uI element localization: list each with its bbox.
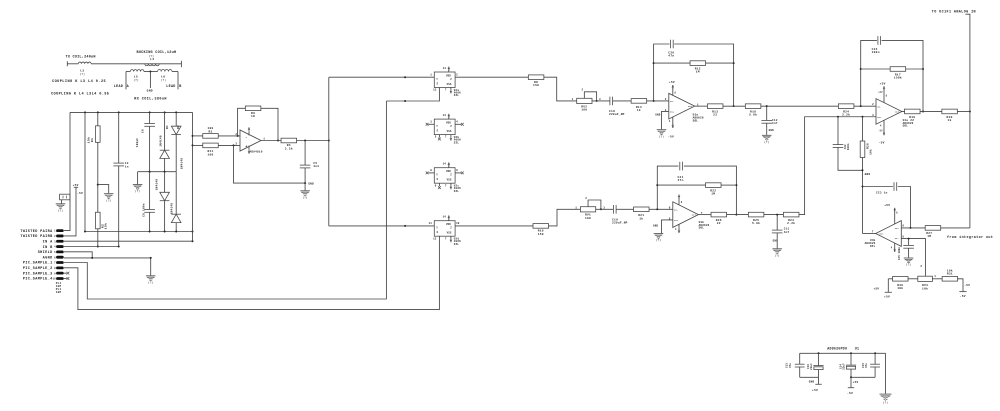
connector pin 1 TWISTED PAIRA <box>56 229 64 232</box>
svg-text:1M: 1M <box>711 193 715 196</box>
svg-text:100: 100 <box>585 217 591 220</box>
no-connect <box>461 172 464 175</box>
svg-text:+5V: +5V <box>669 81 675 84</box>
V- arrow <box>450 89 453 93</box>
svg-text:14: 14 <box>443 216 447 219</box>
svg-text:7: 7 <box>445 136 447 139</box>
svg-text:IN-: IN- <box>674 209 678 212</box>
power V- U5 <box>248 150 251 154</box>
junction IN B / C2 <box>118 246 120 248</box>
connector pin 3 IN A <box>56 240 64 243</box>
svg-text:L4: L4 <box>150 58 154 61</box>
svg-text:9: 9 <box>456 169 458 172</box>
resistor R17 body <box>890 67 906 72</box>
V+ arrow <box>448 215 451 219</box>
svg-text:(?): (?) <box>149 54 155 58</box>
capacitor C10 plates <box>610 97 613 106</box>
junction <box>404 100 406 102</box>
capacitor C24 plates <box>878 36 881 45</box>
resistor R19 body <box>905 109 921 114</box>
junction corner <box>150 257 152 259</box>
wire <box>544 77 577 101</box>
wire lead B vertical <box>177 72 179 90</box>
V+ arrow <box>678 195 681 199</box>
svg-text:BUCKING COIL,12uH: BUCKING COIL,12uH <box>137 51 177 55</box>
V+ arrow <box>893 208 896 212</box>
wire <box>850 369 852 377</box>
stub <box>64 277 67 279</box>
svg-text:-5V: -5V <box>847 392 853 395</box>
svg-text:SOL: SOL <box>699 227 705 230</box>
wire ground tap <box>98 185 109 194</box>
svg-text:7: 7 <box>445 89 447 92</box>
resistor R8 body <box>528 75 544 80</box>
junction RV2 pin3 <box>596 100 598 102</box>
wire <box>175 112 177 126</box>
wire <box>164 112 166 150</box>
wire twisted pair A riser <box>64 112 70 230</box>
wire IN A <box>64 240 193 242</box>
resistor R11 body <box>203 143 219 148</box>
wire <box>164 158 166 171</box>
wire <box>662 220 673 233</box>
svg-text:4n7: 4n7 <box>772 122 778 125</box>
junction bus <box>84 111 86 113</box>
junction feedback U4A <box>860 105 862 107</box>
capacitor C6 plates <box>144 124 155 127</box>
svg-text:C8 100n: C8 100n <box>142 203 145 217</box>
wire <box>592 100 610 102</box>
resistor R10 body <box>533 224 549 229</box>
wire <box>218 135 240 137</box>
svg-text:+5V: +5V <box>884 296 890 299</box>
no-connect <box>426 172 429 175</box>
junction <box>922 68 924 70</box>
junction IN A end <box>192 240 194 242</box>
wire <box>932 278 942 280</box>
op-amp U3A triangle <box>669 93 695 119</box>
wire riser to U4A pin3 <box>799 117 876 215</box>
wire <box>850 377 852 387</box>
svg-text:IN+: IN+ <box>674 219 679 222</box>
svg-text:3: 3 <box>430 120 432 123</box>
junction <box>860 68 862 70</box>
junction <box>84 231 86 233</box>
svg-text:TWISTED PAIRB: TWISTED PAIRB <box>20 235 53 239</box>
wire GND column <box>862 158 864 234</box>
svg-text:PIC_SAMPLE_4: PIC_SAMPLE_4 <box>23 278 53 282</box>
wire <box>304 141 306 166</box>
wire feedback left/top <box>654 44 670 101</box>
inductor L4 humps <box>145 64 159 66</box>
wire <box>766 123 768 128</box>
wire U3A output <box>695 105 708 107</box>
svg-text:220uF_NP: 220uF_NP <box>609 113 625 116</box>
op-amp U3B triangle <box>673 202 699 228</box>
svg-text:47n: 47n <box>668 55 674 58</box>
diode D2 1N4148 <box>171 126 181 134</box>
svg-text:1k: 1k <box>639 216 643 220</box>
VDD stub <box>448 165 450 168</box>
wire R12 rail <box>654 62 690 64</box>
resistor R20 body <box>942 109 958 114</box>
svg-text:PIC_SAMPLE_1: PIC_SAMPLE_1 <box>23 262 53 266</box>
svg-text:22uF: 22uF <box>842 363 845 370</box>
svg-text:3.3k: 3.3k <box>285 146 293 150</box>
svg-text:1N4148: 1N4148 <box>155 179 158 191</box>
V+ arrow <box>883 86 886 90</box>
svg-text:IN-: IN- <box>895 237 899 240</box>
svg-text:2: 2 <box>585 197 587 200</box>
inductor L5 humps <box>130 70 144 72</box>
ground <box>657 130 667 135</box>
wire RV2 wiper loop <box>584 92 596 101</box>
resistor R9 body <box>245 106 261 111</box>
svg-text:22: 22 <box>910 119 914 122</box>
svg-text:(?): (?) <box>80 72 86 76</box>
svg-text:100n: 100n <box>847 143 850 150</box>
svg-text:10: 10 <box>456 222 460 225</box>
svg-text:22: 22 <box>713 114 717 117</box>
wire <box>818 353 820 365</box>
svg-text:C25 100n: C25 100n <box>898 247 901 261</box>
wire <box>193 144 203 146</box>
svg-text:+5V: +5V <box>880 82 886 85</box>
svg-text:3n3: 3n3 <box>313 165 319 168</box>
wire <box>883 86 885 102</box>
stub <box>455 123 461 125</box>
V- arrow <box>678 229 681 233</box>
junction C22 tap <box>837 116 839 118</box>
wire output node <box>297 140 329 142</box>
terminal tick left <box>66 61 68 66</box>
svg-text:GND: GND <box>809 380 815 383</box>
connector pin 8 PIC_SAMPLE_2 <box>56 266 64 269</box>
wire <box>766 128 768 135</box>
power bar <box>885 291 892 293</box>
svg-text:SIL: SIL <box>454 94 460 97</box>
wiper stub <box>925 275 927 278</box>
wire feedback top/right <box>684 166 737 215</box>
svg-text:12: 12 <box>433 237 437 240</box>
junction feedback U3A <box>653 100 655 102</box>
wire RV1 wiper loop <box>588 200 601 209</box>
resistor R4 body <box>281 138 297 143</box>
svg-text:2: 2 <box>235 133 237 136</box>
svg-text:47u: 47u <box>865 363 868 368</box>
svg-text:1k: 1k <box>948 118 952 122</box>
wire from integrator <box>941 227 970 229</box>
wire to switch U2A <box>329 76 435 78</box>
connector pin 7 PIC_SAMPLE_1 <box>56 261 64 264</box>
VSS stub <box>450 135 452 137</box>
wire <box>149 212 151 231</box>
wire <box>837 117 839 145</box>
junction <box>175 231 177 233</box>
svg-text:5: 5 <box>902 235 904 238</box>
junction fanout <box>328 140 330 142</box>
svg-text:1M: 1M <box>696 71 700 74</box>
node center tap <box>149 71 151 73</box>
svg-text:B: B <box>179 85 181 89</box>
svg-text:220uF_NP: 220uF_NP <box>612 222 628 225</box>
wire <box>97 229 99 247</box>
wire <box>218 144 240 146</box>
power bar <box>959 291 966 293</box>
junction bus <box>175 111 177 113</box>
capacitor C19 plates <box>613 205 616 214</box>
junction to R11 <box>192 144 194 146</box>
capacitor C25 plates <box>903 245 914 248</box>
wire top bus <box>70 111 193 113</box>
svg-text:D1: D1 <box>166 125 169 129</box>
resistor R25 body <box>748 212 764 217</box>
svg-text:(?): (?) <box>106 199 111 202</box>
ground <box>133 185 143 190</box>
wire <box>193 135 203 137</box>
wire <box>118 112 120 163</box>
capacitor C3 <box>60 194 70 200</box>
junction <box>850 376 852 378</box>
svg-text:180pF: 180pF <box>136 138 139 148</box>
wire rail <box>851 376 875 378</box>
connector pin 10 PIC_SAMPLE_4 <box>56 277 64 280</box>
wire twisted pair B riser <box>64 187 76 236</box>
resistor R14 body <box>631 99 647 104</box>
wire <box>766 106 768 120</box>
resistor R23 body <box>783 212 799 217</box>
svg-text:22: 22 <box>717 222 721 225</box>
diode D3 1N4148 <box>160 192 170 200</box>
resistor R22 body <box>706 183 722 188</box>
diode D1 1N4148 <box>160 150 170 158</box>
svg-text:1K: 1K <box>251 115 255 118</box>
wire <box>908 248 910 257</box>
wire bus drop <box>84 112 86 231</box>
wire <box>818 377 820 384</box>
resistor R2 body <box>96 212 101 229</box>
svg-text:(?): (?) <box>906 264 911 267</box>
inductor L6 humps <box>158 70 172 72</box>
V+ arrow <box>672 85 675 89</box>
svg-text:6: 6 <box>435 184 437 187</box>
wire <box>144 71 158 73</box>
wire <box>248 131 250 135</box>
wire <box>799 367 801 377</box>
svg-text:IN+: IN+ <box>670 111 675 114</box>
V- arrow <box>672 124 675 128</box>
capacitor C20 plates <box>671 40 674 49</box>
capacitor C22 plates <box>833 145 844 148</box>
svg-text:7: 7 <box>872 230 874 233</box>
svg-text:SIL: SIL <box>454 141 460 144</box>
wire feedback top left <box>863 186 893 188</box>
wire <box>137 172 139 184</box>
wire pin5 to RV3 wiper <box>901 239 925 276</box>
junction <box>149 171 151 173</box>
junction <box>404 76 406 78</box>
V- arrow <box>450 238 453 242</box>
no-connect <box>67 277 70 280</box>
resistor R3 body <box>203 134 219 139</box>
capacitor C12 plates <box>761 120 772 123</box>
svg-text:7: 7 <box>445 184 447 187</box>
inductor L3 humps <box>78 62 91 64</box>
wire <box>172 71 178 73</box>
VDD stub <box>448 218 450 221</box>
svg-text:PIC_SAMPLE_3: PIC_SAMPLE_3 <box>23 272 53 276</box>
svg-text:2: 2 <box>456 73 458 76</box>
resistor R30 body <box>893 277 909 282</box>
svg-text:+5V: +5V <box>812 389 818 392</box>
svg-text:(?): (?) <box>656 239 661 242</box>
capacitor C2 plates <box>113 163 124 166</box>
VSS stub <box>450 88 452 90</box>
svg-text:C6: C6 <box>142 129 145 133</box>
no-connect <box>438 138 441 141</box>
resistor R26 body <box>711 212 727 217</box>
svg-text:150: 150 <box>538 233 544 236</box>
svg-text:COUPLING K L4 L3L4 0.95: COUPLING K L4 L3L4 0.95 <box>51 92 109 96</box>
junction C5 tap <box>304 140 306 142</box>
resistor R28 body <box>860 141 865 158</box>
svg-text:GND: GND <box>865 173 871 176</box>
wire <box>126 71 130 73</box>
analog switch U2A body <box>434 72 455 88</box>
connector pin 6 AGND <box>56 256 64 259</box>
svg-text:-5V: -5V <box>879 141 885 144</box>
wire to switch U2D <box>329 225 435 227</box>
wire clamp bottom rail <box>85 231 193 233</box>
svg-text:R28: R28 <box>867 143 870 149</box>
analog switch U2D body <box>434 221 455 237</box>
svg-text:GND: GND <box>653 225 659 228</box>
junction C25 tap <box>908 238 910 240</box>
svg-text:1n: 1n <box>125 165 129 168</box>
svg-text:14: 14 <box>443 163 447 166</box>
junction output bus <box>969 110 971 112</box>
svg-text:14: 14 <box>443 67 447 70</box>
wire <box>118 166 120 247</box>
svg-text:RX COIL,380uH: RX COIL,380uH <box>134 98 167 102</box>
svg-text:100: 100 <box>581 109 587 112</box>
wire <box>863 233 876 235</box>
svg-text:47n: 47n <box>678 179 684 182</box>
svg-text:C23 1n: C23 1n <box>876 192 888 195</box>
wire sense column <box>192 112 194 241</box>
wire <box>727 214 749 216</box>
stub E <box>438 135 440 138</box>
wire <box>149 112 151 123</box>
svg-text:IN+: IN+ <box>895 227 900 230</box>
svg-text:(?): (?) <box>303 196 308 199</box>
svg-text:(?): (?) <box>148 281 153 284</box>
junction IN B / R2 <box>97 246 99 248</box>
svg-text:-5V: -5V <box>964 284 970 287</box>
junction <box>862 169 864 171</box>
svg-text:from integrator out: from integrator out <box>947 235 993 240</box>
wire <box>616 208 633 210</box>
wire <box>149 126 151 171</box>
svg-text:OUT: OUT <box>692 214 697 217</box>
junction R26/R25 <box>735 214 737 216</box>
svg-text:1: 1 <box>934 275 936 278</box>
svg-text:100n: 100n <box>872 51 880 54</box>
svg-text:1: 1 <box>430 73 432 76</box>
svg-text:(?): (?) <box>161 78 167 82</box>
wire <box>672 117 674 128</box>
wire <box>906 68 923 70</box>
power V+ U5 <box>248 127 251 131</box>
trimmer RV1 <box>580 207 595 212</box>
svg-text:AD8626PDU: AD8626PDU <box>827 347 847 351</box>
wire <box>248 146 250 150</box>
ground <box>880 394 892 400</box>
wire <box>883 120 885 135</box>
svg-text:1N4148: 1N4148 <box>159 135 162 147</box>
svg-text:(?): (?) <box>775 254 780 257</box>
terminal tick right <box>180 61 182 67</box>
svg-text:-5V: -5V <box>960 295 966 298</box>
svg-text:-5V: -5V <box>878 130 883 133</box>
svg-text:+5V: +5V <box>873 288 879 291</box>
junction C12 tap <box>766 105 768 107</box>
stub <box>428 123 434 125</box>
junction <box>874 352 876 354</box>
svg-text:2: 2 <box>582 89 584 92</box>
svg-text:+5V: +5V <box>73 184 79 187</box>
V- arrow <box>883 131 886 135</box>
wire feedback <box>238 108 246 136</box>
connector pin 2 TWISTED PAIRB <box>56 235 64 238</box>
trimmer RV2 <box>577 98 592 103</box>
svg-text:R1: R1 <box>90 138 94 142</box>
svg-text:10: 10 <box>53 278 57 281</box>
resistor R31 body <box>942 277 958 282</box>
ground <box>772 249 782 254</box>
wire shield <box>64 252 92 258</box>
svg-text:1M: 1M <box>927 235 931 238</box>
svg-text:(?): (?) <box>58 209 63 212</box>
junction <box>735 184 737 186</box>
svg-text:GND: GND <box>147 90 153 93</box>
junction <box>164 171 166 173</box>
connector pin 9 PIC_SAMPLE_3 <box>56 272 64 275</box>
V+ arrow <box>448 162 451 166</box>
junction R13/R18 <box>733 105 735 107</box>
wire <box>908 239 910 246</box>
wire <box>776 215 778 231</box>
junction <box>733 62 735 64</box>
junction feedback U4B <box>862 186 864 188</box>
stub <box>455 172 461 174</box>
resistor R24 body <box>838 104 854 109</box>
svg-text:5.6k: 5.6k <box>752 221 760 225</box>
wire <box>874 353 876 364</box>
analog switch U2C body <box>434 168 455 184</box>
svg-text:7: 7 <box>445 237 447 240</box>
ground <box>762 135 772 140</box>
svg-text:(?): (?) <box>883 402 888 405</box>
wire lead A vertical <box>125 72 127 90</box>
svg-text:10k: 10k <box>922 286 928 290</box>
wire output <box>261 140 282 142</box>
svg-text:SHIELD: SHIELD <box>38 251 53 255</box>
svg-text:OUT: OUT <box>895 110 900 113</box>
ground <box>104 194 114 199</box>
wire <box>908 278 918 280</box>
svg-text:15k: 15k <box>104 223 108 230</box>
